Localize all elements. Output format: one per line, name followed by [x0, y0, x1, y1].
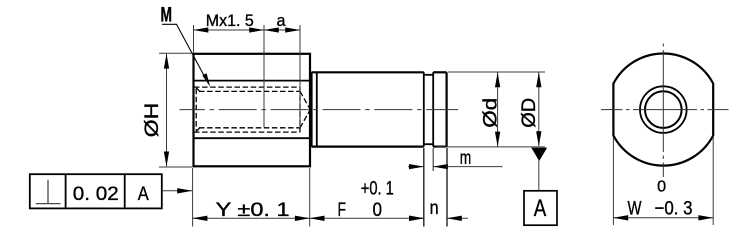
datum A box — [524, 191, 557, 225]
hidden thread hole dashed lines — [194, 87, 310, 132]
bottom extension lines — [193, 148, 447, 227]
M leader — [162, 24, 208, 82]
dimension n — [409, 217, 424, 219]
shaft outline — [312, 72, 447, 146]
groove — [424, 72, 433, 146]
thread major circle — [640, 86, 687, 133]
dimension a — [264, 29, 300, 31]
end view outline: circle with two flats — [613, 53, 713, 165]
svg-text:ØH: ØH — [142, 103, 163, 138]
shaft chamfer line — [316, 72, 318, 146]
svg-text:Ød: Ød — [481, 98, 502, 128]
svg-text:Mx1. 5: Mx1. 5 — [206, 11, 254, 30]
body outline (hex body front view) — [194, 54, 311, 167]
svg-text:a: a — [277, 11, 287, 30]
perpendicularity tolerance frame — [30, 174, 162, 208]
svg-text:M: M — [161, 3, 173, 26]
svg-text:n: n — [430, 198, 439, 219]
dimension Y — [193, 217, 310, 219]
dimension Mx1.5 — [194, 29, 265, 31]
svg-text:Y ±0. 1: Y ±0. 1 — [216, 199, 290, 221]
dimension F — [310, 217, 424, 219]
dimension m — [408, 148, 503, 171]
svg-text:ØD: ØD — [519, 98, 540, 128]
thread minor circle — [645, 91, 682, 128]
svg-text:0. 02: 0. 02 — [73, 183, 119, 205]
svg-text:A: A — [534, 195, 547, 222]
svg-text:F: F — [338, 199, 347, 221]
body flat edge lines — [194, 81, 311, 139]
end view centerlines — [601, 44, 729, 178]
dimension ØD with datum — [504, 72, 546, 191]
svg-text:−0. 3: −0. 3 — [655, 198, 693, 220]
centerline front view — [180, 109, 459, 111]
dimension ØH — [159, 53, 192, 167]
dimension W — [613, 138, 713, 226]
dimension Ød — [436, 72, 504, 147]
svg-text:0: 0 — [657, 179, 666, 196]
top dimension extension lines — [194, 25, 301, 128]
svg-text:m: m — [460, 147, 472, 169]
datum triangle — [531, 148, 547, 161]
svg-text:A: A — [138, 183, 149, 205]
frame leader arrow — [162, 190, 192, 192]
svg-text:W: W — [628, 198, 642, 220]
svg-text:+0. 1: +0. 1 — [361, 177, 394, 199]
shaft left face — [311, 72, 313, 146]
perpendicular symbol — [36, 180, 61, 204]
svg-text:0: 0 — [373, 199, 383, 221]
